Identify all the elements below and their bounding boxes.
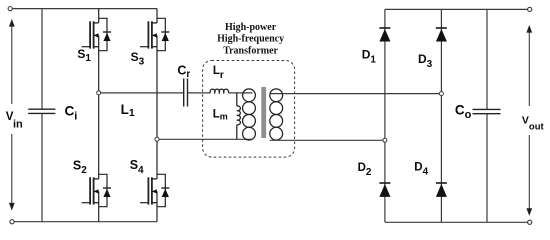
svg-text:Transformer: Transformer bbox=[223, 45, 278, 56]
svg-text:S4: S4 bbox=[130, 158, 144, 176]
transformer T1 secondary winding bbox=[270, 89, 283, 140]
svg-text:D2: D2 bbox=[358, 162, 372, 178]
svg-text:Ci: Ci bbox=[65, 103, 78, 122]
svg-text:Co: Co bbox=[455, 103, 472, 122]
transformer T1 core bbox=[261, 87, 266, 138]
wire diode leg left bbox=[384, 9, 386, 222]
dashed transformer box bbox=[203, 61, 295, 158]
node input terminal top (+) bbox=[8, 7, 12, 11]
svg-text:Cr: Cr bbox=[177, 64, 190, 80]
capacitor Co plates bbox=[473, 109, 501, 113]
svg-text:Lr: Lr bbox=[213, 65, 224, 81]
svg-text:Lm: Lm bbox=[213, 108, 228, 121]
wire bridge mid output bottom (node B to primary) bbox=[157, 138, 253, 140]
transformer T1 primary winding bbox=[243, 89, 256, 140]
wire secondary bottom to D1/D2 node bbox=[270, 139, 385, 141]
wire diode leg right bbox=[440, 9, 442, 222]
capacitor Ci plates bbox=[28, 109, 55, 113]
diode D4 bbox=[436, 183, 447, 197]
svg-text:S2: S2 bbox=[73, 158, 87, 176]
svg-text:Vin: Vin bbox=[6, 111, 23, 131]
capacitor Co leads bbox=[486, 9, 488, 109]
node output terminal bottom bbox=[528, 220, 532, 224]
MOSFET S3 bbox=[140, 9, 169, 140]
wire bottom-right rail bbox=[385, 221, 528, 223]
node B bridge right mid bbox=[155, 137, 159, 141]
svg-text:S1: S1 bbox=[77, 47, 91, 64]
wire bridge mid output top (node A to Cr) bbox=[99, 92, 183, 94]
Vin measurement arrow down bbox=[9, 134, 15, 211]
svg-text:D4: D4 bbox=[414, 161, 428, 177]
diode D3 bbox=[436, 28, 447, 42]
wire top-left rail bbox=[12, 8, 157, 10]
svg-text:D3: D3 bbox=[418, 52, 433, 70]
svg-text:D1: D1 bbox=[362, 48, 377, 66]
wire Cr to Lr bbox=[188, 92, 210, 94]
capacitor Cr plates bbox=[184, 79, 188, 107]
wire bottom-left rail bbox=[14, 221, 157, 223]
MOSFET S4 bbox=[140, 139, 169, 221]
node input terminal bottom (-) bbox=[10, 220, 14, 224]
svg-text:Vout: Vout bbox=[522, 115, 545, 133]
diode D1 bbox=[379, 28, 390, 42]
node A bridge left mid bbox=[97, 91, 101, 95]
wire secondary top to D3/D4 node bbox=[270, 93, 442, 95]
Vout measurement arrow up bbox=[526, 25, 532, 106]
inductor Lr bbox=[210, 89, 228, 93]
node output terminal top bbox=[528, 7, 532, 11]
svg-text:L1: L1 bbox=[121, 102, 135, 119]
wire Lr to primary bbox=[228, 92, 252, 94]
svg-text:S3: S3 bbox=[131, 50, 145, 68]
capacitor Ci leads bbox=[41, 9, 43, 110]
node C rectifier right mid bbox=[439, 92, 443, 96]
Vin measurement arrow up bbox=[9, 19, 15, 104]
wire top-right rail bbox=[385, 8, 528, 10]
inductor Lm bbox=[237, 93, 241, 139]
node D rectifier left mid bbox=[383, 138, 387, 142]
diode D2 bbox=[379, 183, 390, 197]
MOSFET S2 bbox=[82, 93, 111, 222]
svg-text:High-frequency: High-frequency bbox=[217, 33, 284, 44]
Vout measurement arrow down bbox=[526, 135, 532, 216]
MOSFET S1 bbox=[82, 9, 111, 93]
svg-text:High-power: High-power bbox=[225, 22, 277, 33]
